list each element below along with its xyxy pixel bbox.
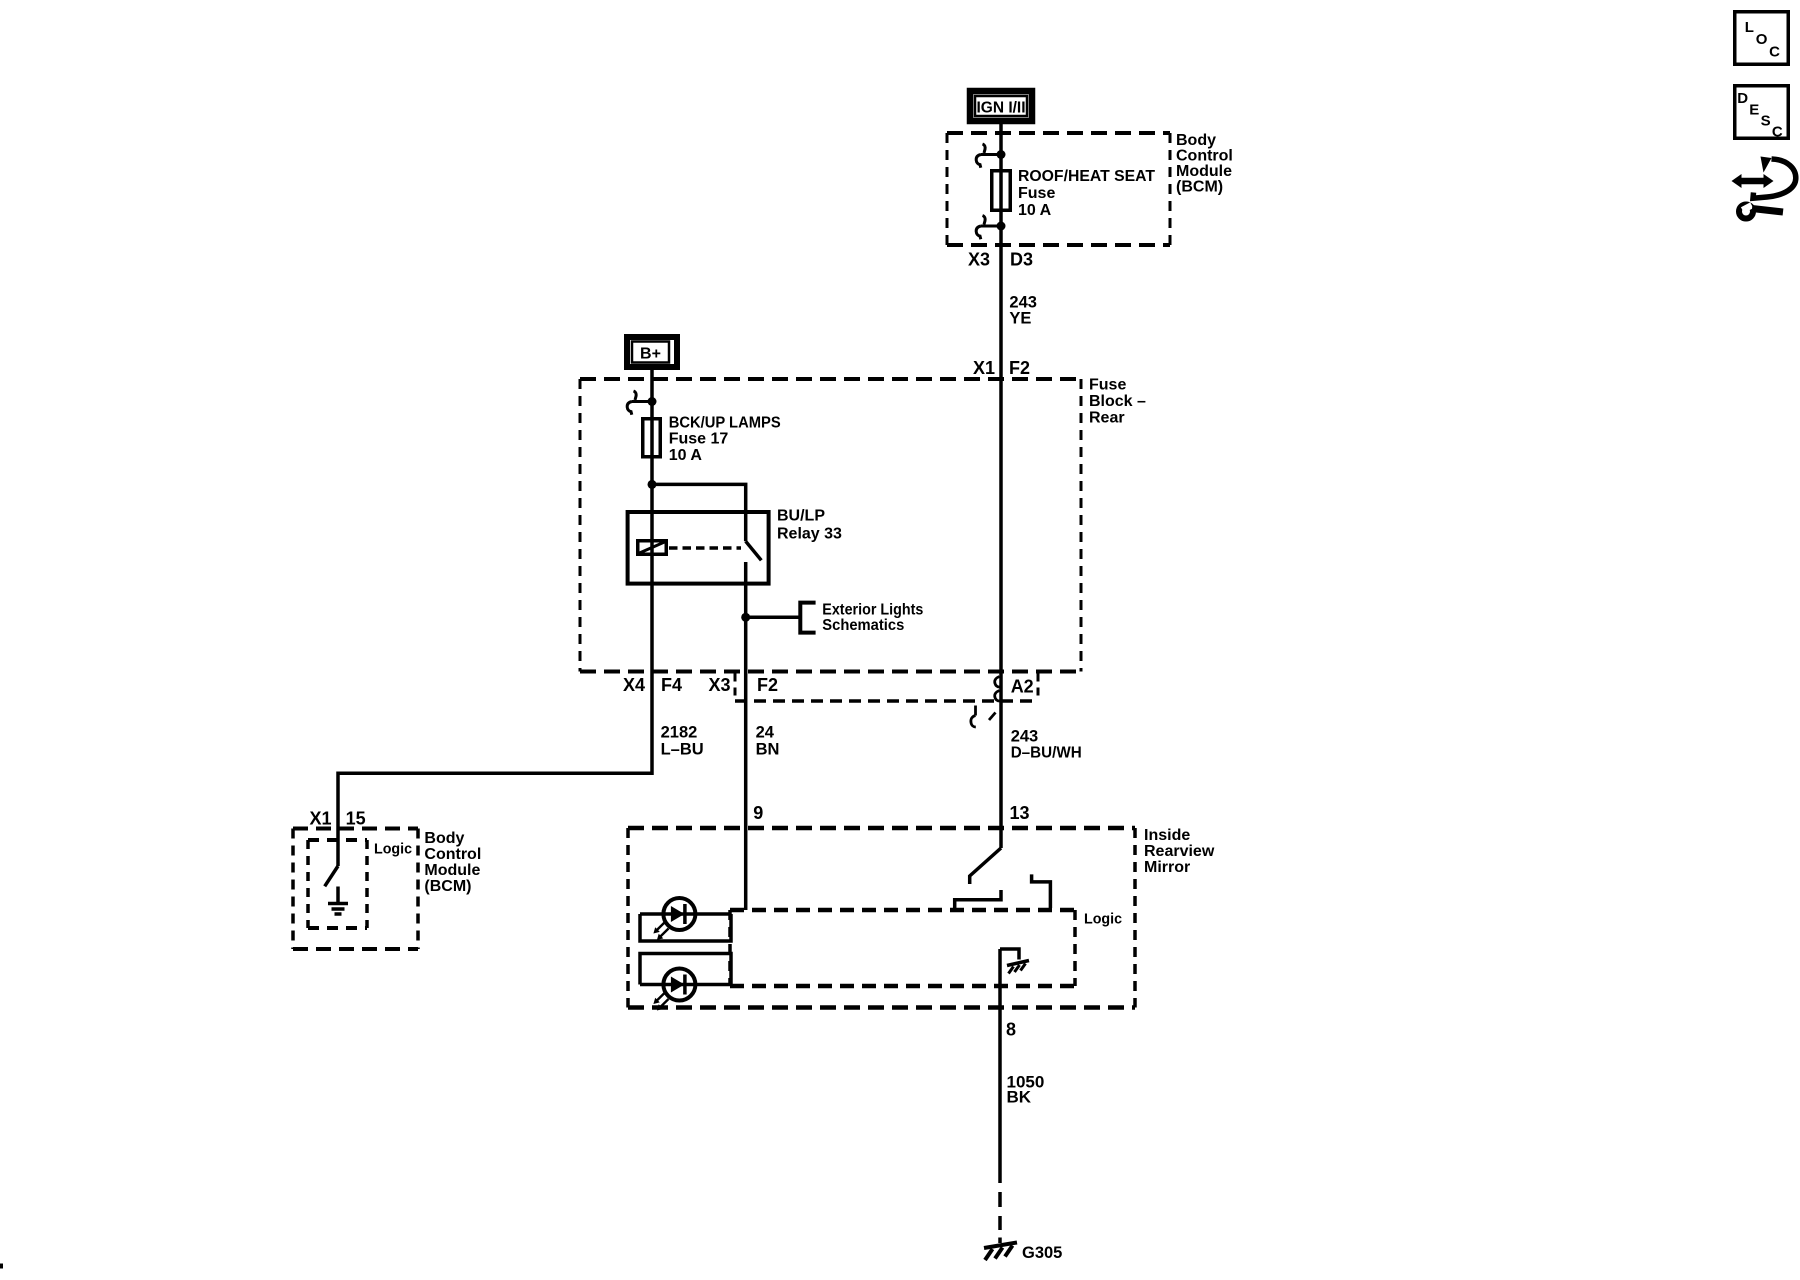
svg-text:X3: X3: [708, 675, 730, 695]
svg-text:X4: X4: [623, 675, 645, 695]
svg-text:Relay 33: Relay 33: [777, 525, 842, 542]
svg-text:9: 9: [753, 803, 763, 823]
svg-text:L–BU: L–BU: [661, 741, 704, 759]
svg-text:X1: X1: [309, 808, 331, 828]
svg-text:Exterior Lights: Exterior Lights: [822, 601, 923, 618]
svg-text:A2: A2: [1011, 677, 1034, 697]
svg-text:BN: BN: [756, 741, 780, 759]
svg-text:L: L: [1745, 19, 1754, 36]
svg-text:Inside: Inside: [1144, 827, 1190, 844]
svg-text:C: C: [1769, 43, 1780, 60]
svg-text:D: D: [1737, 90, 1748, 107]
svg-text:Control: Control: [424, 846, 481, 863]
svg-text:Block –: Block –: [1089, 393, 1146, 410]
svg-text:2182: 2182: [661, 724, 698, 742]
svg-text:10 A: 10 A: [1018, 202, 1052, 219]
svg-text:(BCM): (BCM): [1176, 179, 1223, 196]
svg-text:Logic: Logic: [1084, 911, 1122, 928]
svg-text:F2: F2: [1009, 358, 1030, 378]
svg-text:ROOF/HEAT SEAT: ROOF/HEAT SEAT: [1018, 168, 1155, 185]
svg-text:Body: Body: [424, 830, 464, 847]
svg-text:Control: Control: [1176, 148, 1233, 165]
svg-text:S: S: [1761, 113, 1771, 130]
svg-text:BU/LP: BU/LP: [777, 508, 825, 525]
svg-text:Fuse 17: Fuse 17: [669, 431, 729, 448]
svg-text:8: 8: [1006, 1020, 1016, 1040]
svg-text:(BCM): (BCM): [424, 878, 471, 895]
svg-text:BK: BK: [1007, 1087, 1032, 1106]
svg-text:F4: F4: [661, 675, 682, 695]
svg-text:IGN I/II: IGN I/II: [976, 100, 1025, 117]
svg-text:Module: Module: [1176, 163, 1232, 180]
svg-text:Module: Module: [424, 862, 480, 879]
svg-text:Schematics: Schematics: [822, 617, 904, 634]
svg-text:X1: X1: [973, 358, 995, 378]
svg-text:B+: B+: [640, 346, 661, 363]
svg-text:24: 24: [756, 724, 775, 742]
svg-text:F2: F2: [757, 675, 778, 695]
svg-text:13: 13: [1010, 803, 1030, 823]
svg-text:Fuse: Fuse: [1018, 185, 1055, 202]
svg-text:Fuse: Fuse: [1089, 377, 1126, 394]
svg-text:15: 15: [346, 808, 366, 828]
svg-text:243: 243: [1011, 728, 1039, 746]
svg-text:Body: Body: [1176, 132, 1216, 149]
svg-text:E: E: [1749, 101, 1759, 118]
svg-text:Rear: Rear: [1089, 409, 1125, 426]
svg-text:D3: D3: [1010, 250, 1033, 270]
svg-text:O: O: [1756, 31, 1768, 48]
svg-text:Mirror: Mirror: [1144, 859, 1190, 876]
svg-text:X3: X3: [968, 250, 990, 270]
svg-text:Logic: Logic: [374, 841, 412, 858]
svg-text:D–BU/WH: D–BU/WH: [1011, 745, 1082, 762]
svg-text:10 A: 10 A: [669, 447, 703, 464]
svg-text:Rearview: Rearview: [1144, 843, 1215, 860]
svg-text:BCK/UP LAMPS: BCK/UP LAMPS: [669, 415, 781, 432]
svg-text:G305: G305: [1022, 1244, 1062, 1262]
svg-text:YE: YE: [1009, 310, 1031, 328]
svg-text:C: C: [1772, 124, 1783, 141]
